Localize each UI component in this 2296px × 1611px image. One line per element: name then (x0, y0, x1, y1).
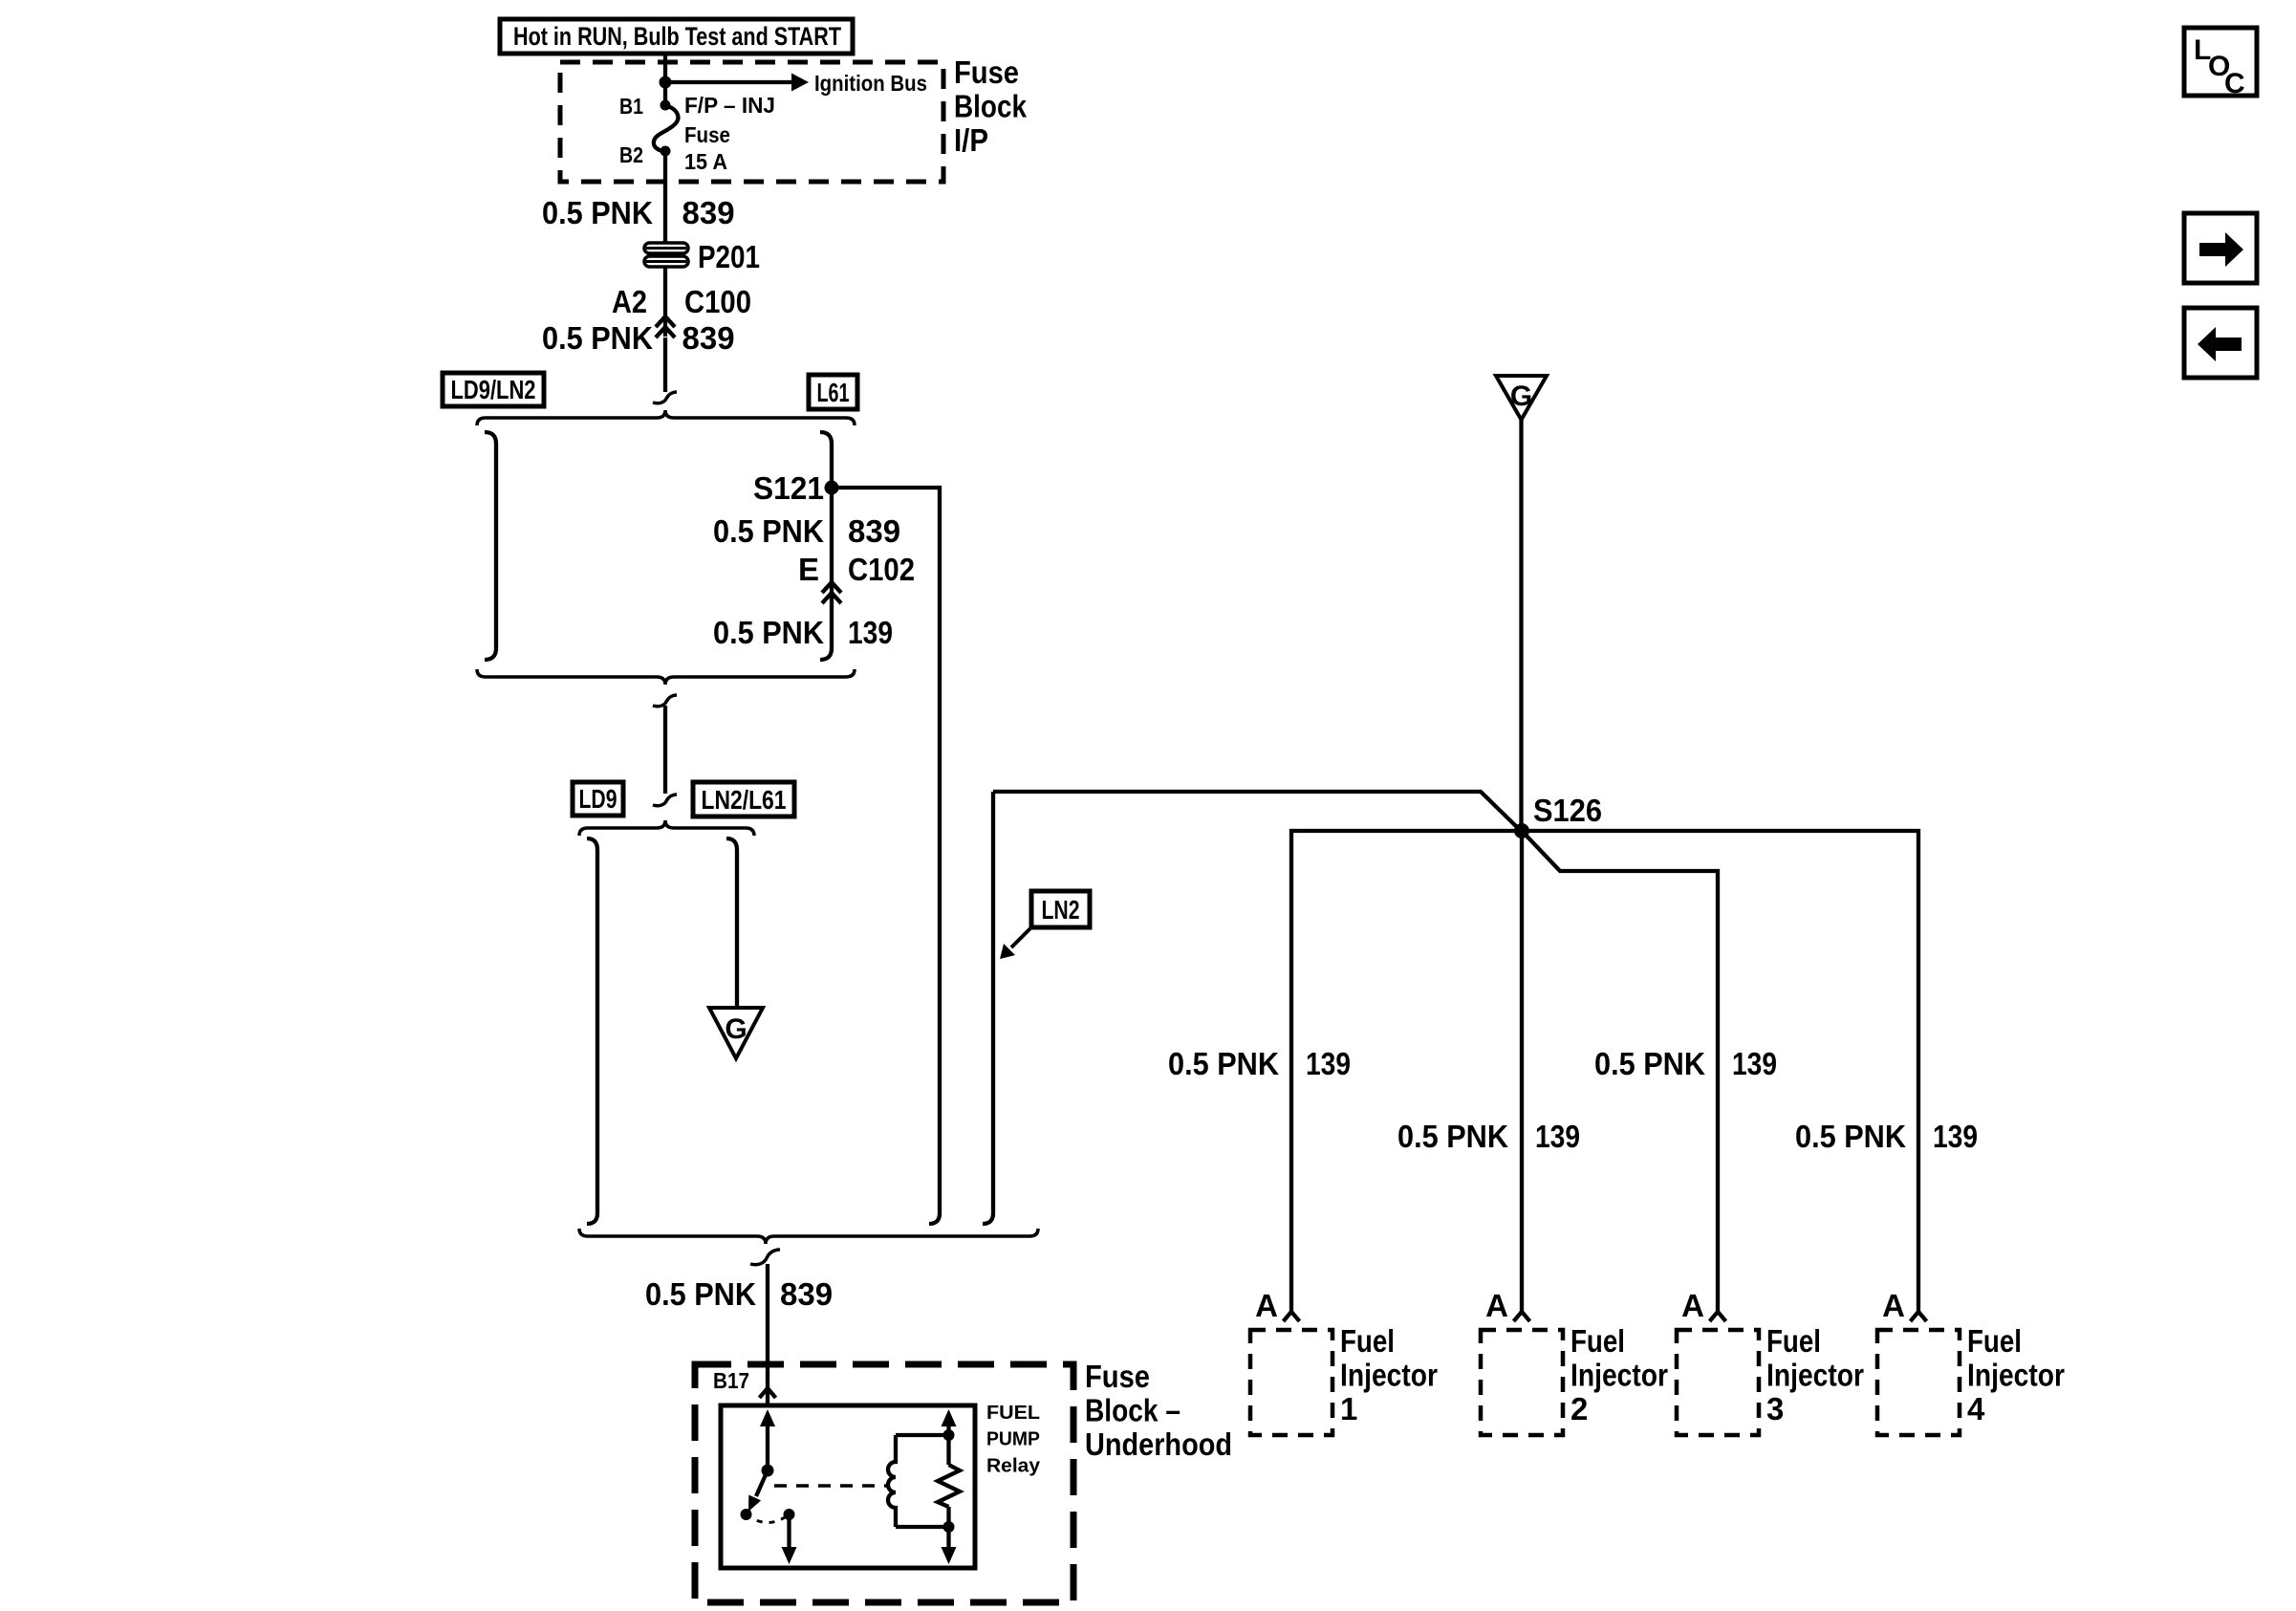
svg-text:Fuel: Fuel (1340, 1323, 1395, 1359)
splice S121 node (825, 481, 839, 495)
option tag box LN2 with arrow (1000, 891, 1090, 959)
svg-text:A: A (1681, 1288, 1704, 1323)
svg-text:Fuse: Fuse (1085, 1359, 1150, 1394)
svg-text:A: A (1485, 1288, 1508, 1323)
arrow to Ignition Bus (791, 74, 809, 92)
wire from title box into fuse block (663, 54, 667, 105)
svg-text:0.5 PNK: 0.5 PNK (542, 195, 653, 230)
svg-text:0.5 PNK: 0.5 PNK (1594, 1046, 1705, 1081)
wire S126 to injector 3 (1522, 831, 1718, 1312)
svg-text:Fuel: Fuel (1766, 1323, 1821, 1359)
svg-text:G: G (725, 1013, 747, 1045)
fuel injector 3 dashed box (1677, 1330, 1759, 1435)
wire to C100 (663, 267, 667, 337)
svg-text:LN2: LN2 (1042, 895, 1080, 925)
svg-text:Ignition Bus: Ignition Bus (814, 71, 927, 96)
wire break tilde below brace (750, 1250, 780, 1265)
wire from LN2 corner to splice S126 (993, 792, 1520, 830)
wire 0.5 PNK 839 below fuse block (663, 151, 667, 245)
option split brace 2 (LD9 vs LN2/L61) (579, 820, 754, 836)
fuse F/P - INJ 15 A element (squiggle) (654, 105, 679, 151)
svg-text:Hot in RUN, Bulb Test and STAR: Hot in RUN, Bulb Test and START (513, 22, 841, 51)
resistor bottom node (943, 1521, 955, 1533)
svg-text:G: G (1510, 381, 1532, 412)
fuse block I/P dashed box (560, 62, 943, 182)
wire between option sections (663, 706, 667, 794)
relay throw contact right node (784, 1509, 795, 1520)
wire break tilde above second split (653, 795, 677, 806)
wire S126 to injector 1 (1291, 831, 1522, 1312)
coil top rail (896, 1433, 949, 1437)
fuel pump relay box (721, 1405, 975, 1568)
relay mechanical link (dashed) (774, 1484, 887, 1488)
fuel injector 1 dashed box (1250, 1330, 1332, 1435)
option box LD9/LN2 (443, 373, 544, 406)
title box "Hot in RUN, Bulb Test and START" (500, 19, 853, 54)
relay coil suppression resistor (938, 1465, 960, 1507)
terminal B1 node (661, 100, 671, 111)
branch wire LN2/L61 to ground (726, 838, 737, 1008)
relay switch input arrow (up) (766, 1423, 769, 1470)
connector C100 symbol (double chevron) (656, 316, 675, 337)
svg-text:A2: A2 (612, 284, 647, 319)
svg-text:FUEL: FUEL (986, 1403, 1040, 1424)
svg-text:1: 1 (1340, 1391, 1357, 1426)
connector terminal A (injector 3) (1710, 1312, 1726, 1321)
branch wire LD9 down to fuel pump relay brace (587, 838, 597, 1224)
svg-text:15 A: 15 A (684, 149, 727, 174)
wire S126 to injector 4 (1522, 831, 1918, 1312)
nav icon box right arrow (2184, 213, 2257, 283)
svg-text:E: E (798, 552, 819, 587)
locator icon box LOC (2184, 28, 2257, 99)
svg-text:Fuse: Fuse (684, 122, 730, 147)
svg-text:0.5 PNK: 0.5 PNK (713, 615, 824, 650)
ground G (left) (709, 1008, 763, 1058)
wire break tilde above split (653, 392, 677, 403)
svg-text:P201: P201 (698, 239, 760, 274)
option box LD9 (573, 782, 623, 816)
svg-text:839: 839 (780, 1276, 833, 1312)
svg-text:839: 839 (682, 320, 735, 356)
svg-text:2: 2 (1570, 1391, 1588, 1426)
closing brace of first option section (477, 669, 855, 685)
svg-text:C: C (2224, 68, 2245, 99)
nav icon box left arrow (2184, 308, 2257, 378)
wire S126 to injector 2 (1520, 831, 1524, 1312)
svg-text:Fuel: Fuel (1967, 1323, 2022, 1359)
ground wire down to S126 (1519, 420, 1523, 831)
terminal B2 node (661, 146, 671, 157)
relay dashed throw arc (747, 1514, 790, 1523)
ground G (top right) (1496, 376, 1547, 420)
option split brace (LD9/LN2 vs L61) (477, 410, 855, 425)
svg-text:Injector: Injector (1967, 1357, 2065, 1392)
svg-text:139: 139 (1732, 1046, 1777, 1081)
fuse block underhood dashed box (695, 1364, 1073, 1602)
connector C102 symbol (double chevron) (822, 582, 841, 603)
svg-text:Underhood: Underhood (1085, 1426, 1232, 1462)
svg-text:Block: Block (954, 88, 1028, 123)
svg-text:LD9: LD9 (579, 784, 617, 814)
svg-text:139: 139 (1306, 1046, 1351, 1081)
svg-text:B1: B1 (619, 94, 643, 119)
svg-text:Injector: Injector (1340, 1357, 1438, 1392)
svg-text:139: 139 (1933, 1119, 1978, 1154)
svg-text:I/P: I/P (954, 122, 988, 158)
relay coil terminal wire down arrow (946, 1507, 950, 1549)
svg-text:LD9/LN2: LD9/LN2 (451, 375, 536, 404)
connector terminal B17 (Y symbol) (760, 1388, 776, 1398)
svg-text:839: 839 (682, 195, 735, 230)
svg-text:0.5 PNK: 0.5 PNK (1168, 1046, 1279, 1081)
svg-text:0.5 PNK: 0.5 PNK (645, 1276, 756, 1312)
svg-text:4: 4 (1967, 1391, 1985, 1426)
svg-text:F/P – INJ: F/P – INJ (684, 93, 775, 118)
junction node at ignition bus tap (660, 76, 672, 89)
svg-text:Relay: Relay (986, 1455, 1041, 1476)
resistor top node (943, 1429, 955, 1441)
branch wire L61 vertical (820, 444, 832, 660)
svg-text:PUMP: PUMP (986, 1429, 1040, 1450)
svg-text:B17: B17 (713, 1368, 749, 1393)
closing brace above fuel pump relay feed (579, 1229, 1038, 1244)
svg-text:Injector: Injector (1570, 1357, 1668, 1392)
relay output wire with arrow (down) (787, 1514, 791, 1549)
svg-text:Block –: Block – (1085, 1392, 1180, 1427)
svg-text:L61: L61 (817, 378, 850, 407)
svg-text:Fuel: Fuel (1570, 1323, 1625, 1359)
wire 0.5 PNK 839 below C100 (663, 337, 667, 392)
connector terminal A (injector 4) (1911, 1312, 1927, 1321)
svg-text:S126: S126 (1533, 793, 1602, 828)
svg-text:LN2/L61: LN2/L61 (702, 785, 787, 815)
branch wire LD9/LN2 (bracket) (485, 432, 496, 660)
fuel injector 2 dashed box (1481, 1330, 1563, 1435)
connector terminal A (injector 1) (1284, 1312, 1300, 1321)
svg-text:B2: B2 (619, 142, 643, 167)
svg-text:839: 839 (848, 513, 900, 549)
option box LN2/L61 (693, 782, 794, 816)
wire break tilde below first section (653, 695, 677, 707)
relay switch common node (762, 1465, 774, 1477)
wire 0.5 PNK 839 to fuse block underhood (766, 1264, 769, 1389)
svg-text:0.5 PNK: 0.5 PNK (542, 320, 653, 356)
svg-text:A: A (1255, 1288, 1278, 1323)
svg-text:A: A (1882, 1288, 1905, 1323)
relay coil terminal wire up arrow (946, 1423, 950, 1465)
splice S126 node (1514, 823, 1529, 838)
connector terminal A (injector 2) (1514, 1312, 1530, 1321)
svg-text:Fuse: Fuse (954, 54, 1019, 90)
svg-text:0.5 PNK: 0.5 PNK (713, 513, 824, 549)
coil bottom rail (896, 1525, 949, 1529)
svg-text:3: 3 (1766, 1391, 1784, 1426)
relay movable contact arm with arrowhead (756, 1470, 768, 1496)
svg-text:0.5 PNK: 0.5 PNK (1795, 1119, 1906, 1154)
svg-text:C102: C102 (848, 552, 915, 587)
fuel injector 4 dashed box (1877, 1330, 1960, 1435)
svg-text:139: 139 (1535, 1119, 1580, 1154)
svg-text:139: 139 (848, 615, 893, 650)
grommet P201 (644, 243, 688, 267)
svg-text:C100: C100 (684, 284, 751, 319)
branch wire L61 top hook (820, 432, 832, 444)
wire from LN2 corner down to brace (983, 792, 993, 1224)
relay throw contact left node (741, 1509, 752, 1520)
option box L61 (809, 375, 857, 409)
Ignition Bus feed wire (665, 80, 791, 84)
svg-text:S121: S121 (753, 470, 824, 506)
svg-text:Injector: Injector (1766, 1357, 1864, 1392)
svg-text:0.5 PNK: 0.5 PNK (1397, 1119, 1508, 1154)
relay coil (888, 1435, 896, 1527)
wire from S121 to right riser (832, 488, 940, 1224)
